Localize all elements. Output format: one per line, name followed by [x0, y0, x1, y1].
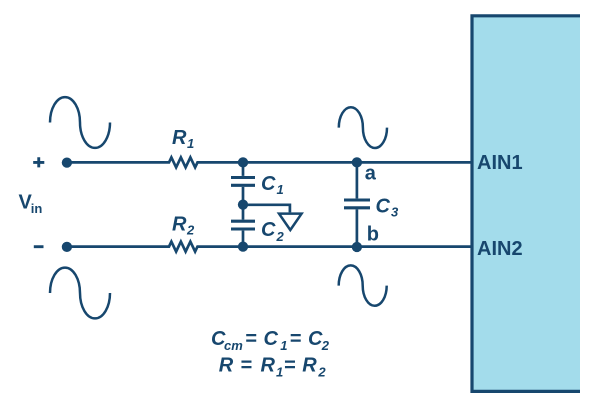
svg-text:2: 2	[321, 338, 330, 353]
svg-text:b: b	[367, 223, 379, 245]
svg-text:R: R	[219, 355, 234, 377]
svg-text:2: 2	[186, 222, 195, 237]
svg-text:1: 1	[277, 182, 284, 197]
svg-text:=: =	[284, 355, 296, 377]
svg-text:1: 1	[187, 136, 194, 151]
svg-text:AIN1: AIN1	[477, 152, 523, 174]
svg-text:in: in	[31, 201, 43, 216]
svg-text:C: C	[261, 219, 276, 241]
svg-text:C: C	[261, 173, 276, 195]
svg-text:C: C	[376, 195, 391, 217]
svg-text:1: 1	[276, 365, 283, 380]
svg-text:cm: cm	[224, 338, 243, 353]
svg-text:R: R	[172, 214, 187, 236]
svg-text:2: 2	[317, 365, 326, 380]
svg-text:C: C	[308, 328, 323, 350]
svg-text:R: R	[172, 127, 187, 149]
svg-text:C: C	[264, 328, 279, 350]
svg-text:R: R	[302, 355, 317, 377]
svg-text:=: =	[245, 328, 257, 350]
svg-text:AIN2: AIN2	[477, 238, 523, 260]
svg-text:2: 2	[276, 229, 285, 244]
svg-text:1: 1	[280, 338, 287, 353]
svg-text:a: a	[365, 162, 377, 184]
svg-text:=: =	[290, 328, 302, 350]
svg-text:=: =	[240, 355, 252, 377]
svg-text:R: R	[261, 355, 276, 377]
svg-text:3: 3	[391, 204, 399, 219]
